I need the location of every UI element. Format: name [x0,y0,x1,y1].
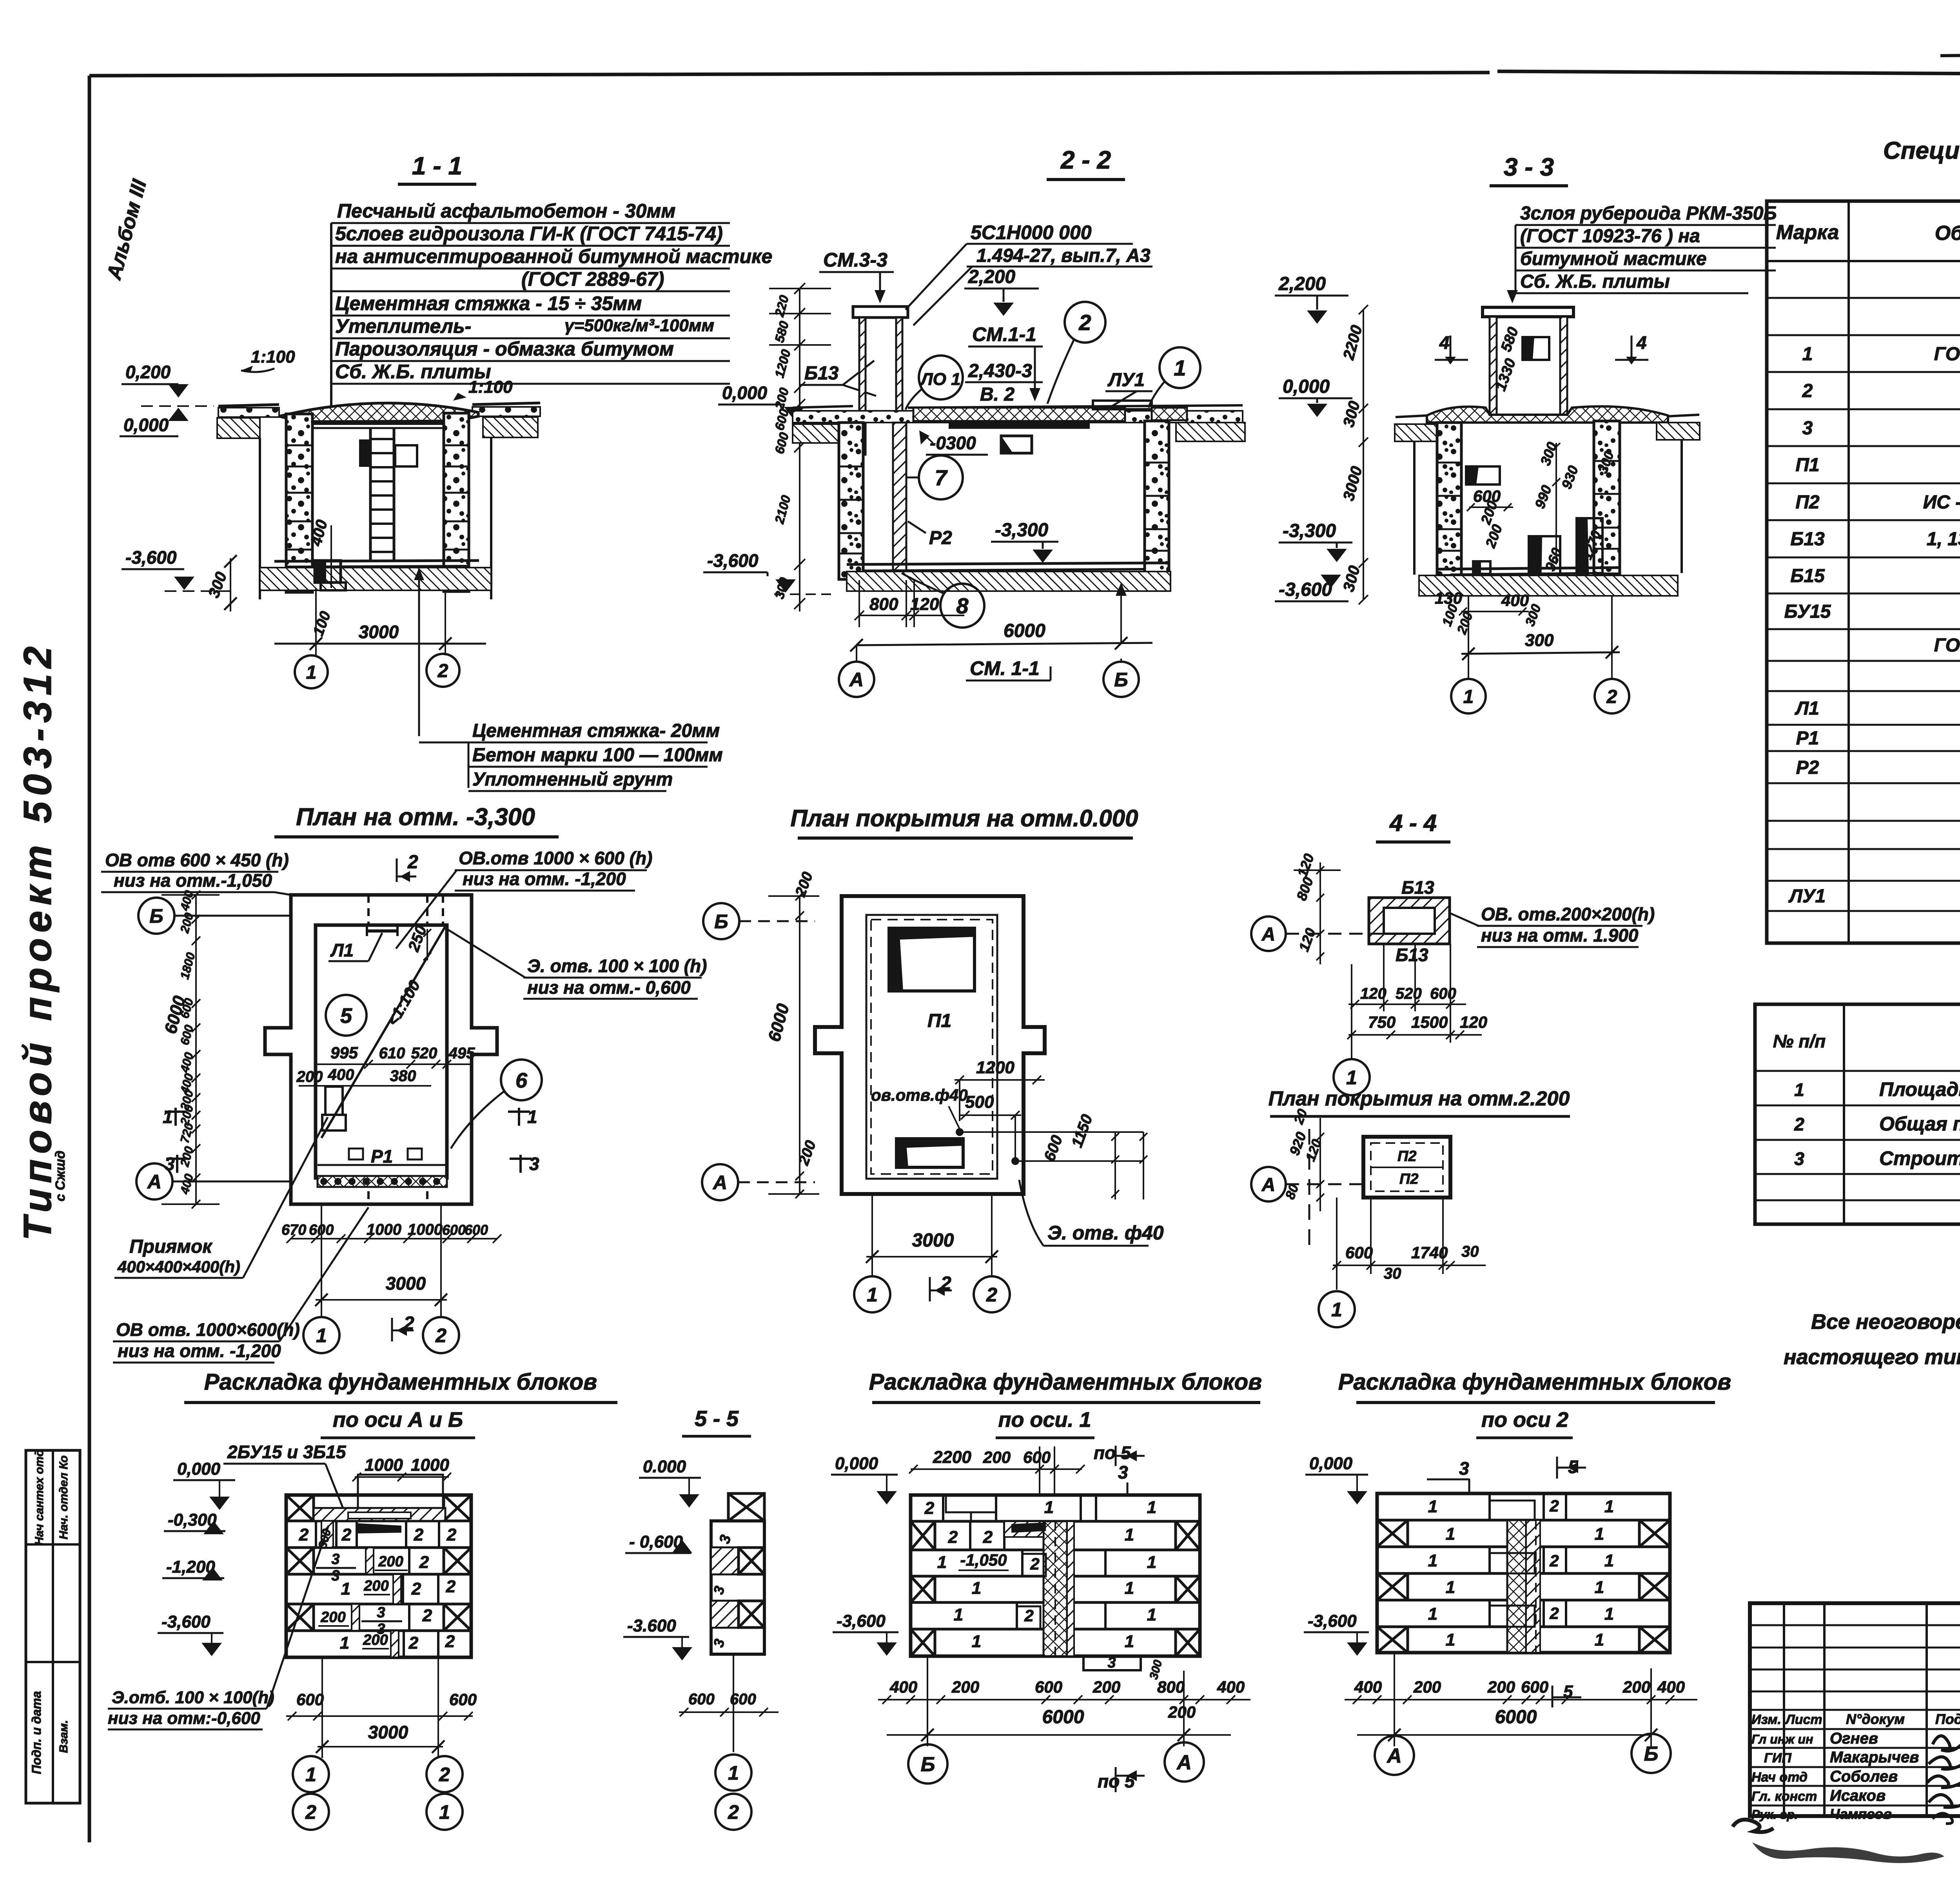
plan 2.200 left dims [1283,1107,1325,1211]
svg-text:2: 2 [728,1801,739,1823]
section 4-4 axis circle 1 [1334,1059,1370,1095]
section 3-3 excavation outline [1414,440,1682,575]
note text all units see album IV [1784,1310,1960,1369]
svg-text:2: 2 [407,852,418,873]
svg-text:Б13: Б13 [1401,877,1434,898]
layout axis2 block wall elevation [1377,1493,1670,1653]
section 3-3 small fixture 200 [1473,499,1505,574]
section 1-1 roof crosshatch slab [279,403,478,422]
svg-text:200: 200 [363,1578,388,1594]
svg-text:1 - 1: 1 - 1 [412,152,462,180]
plan -3.300 detail circle 6 [451,1060,542,1149]
svg-text:0,200: 0,200 [125,362,171,382]
svg-text:1: 1 [972,1579,981,1598]
section 2-2 level 2,200 [964,267,1039,316]
svg-text:2: 2 [299,1525,309,1544]
layout axis1 row3 blocks [937,1550,1156,1576]
svg-text:1: 1 [305,1764,316,1785]
svg-text:Э. отв. ф40: Э. отв. ф40 [1047,1222,1164,1244]
layout A-B row3 blocks [286,1548,471,1584]
svg-text:3: 3 [710,1637,728,1649]
svg-text:Гл инж ин: Гл инж ин [1751,1732,1813,1746]
svg-text:1, 139 -1 , вып. 1: 1, 139 -1 , вып. 1 [1927,529,1960,550]
plan -3.300 pit rectangle [322,1087,346,1130]
plan 0.000 bottom opening dark [897,1139,963,1167]
svg-text:580: 580 [772,319,791,344]
section 2-2 chimney [853,307,908,455]
svg-text:30: 30 [1461,1243,1479,1260]
layout A-B level 0,000 [173,1459,235,1510]
svg-text:100: 100 [310,609,334,638]
section 2-2 level -3,300 [991,520,1058,563]
svg-text:1: 1 [527,1107,537,1127]
svg-text:1: 1 [340,1633,349,1653]
title block signature rows [1751,1730,1919,1822]
svg-text:400: 400 [1217,1678,1245,1696]
svg-text:<1:100: <1:100 [384,978,424,1029]
plan -3.300 outer wall outline [265,895,497,1204]
layout axis1 row6 blocks [911,1629,1200,1656]
section 1-1 asphalt road surface band [218,403,540,417]
svg-text:2: 2 [924,1499,935,1518]
section 3-3 axis circle 2 [1595,679,1629,713]
plan 0.000 label E otv f40 [1019,1180,1164,1246]
svg-text:580: 580 [1498,325,1522,354]
svg-text:2: 2 [446,1577,456,1596]
svg-text:1: 1 [1125,1525,1134,1544]
svg-text:3: 3 [331,1568,339,1584]
svg-text:2 - 2: 2 - 2 [1060,146,1111,174]
layout A-B row2 blocks [299,1521,457,1550]
section 1-1 ground hatch left [217,418,260,438]
svg-text:-3,600: -3,600 [1308,1611,1357,1631]
svg-text:Б13: Б13 [1396,945,1428,965]
section 4-4 label OV otv 200x200 [1450,904,1655,947]
svg-text:600: 600 [1345,1243,1373,1262]
plan -3.300 section mark 2 top [397,852,418,882]
svg-text:3: 3 [377,1604,385,1621]
svg-text:-1,050: -1,050 [960,1551,1007,1569]
layout A-B bottom dims [286,1657,477,1758]
plan 0.000 dim 1200 [955,1058,1045,1121]
svg-text:Э.отб. 100 × 100(h): Э.отб. 100 × 100(h) [112,1688,274,1707]
plan -3.300 label E otv 100x100 [447,929,707,999]
svg-text:по оси 2: по оси 2 [1481,1408,1568,1432]
svg-text:1: 1 [316,1325,327,1346]
svg-text:1: 1 [954,1605,963,1624]
svg-text:2,200: 2,200 [968,267,1015,287]
plan -3.300 axis circle 1 bottom [303,1317,339,1353]
svg-text:0,000: 0,000 [1283,376,1330,397]
section 1-1 right wall blocks [444,413,469,592]
svg-text:П2: П2 [1397,1148,1416,1165]
layout axis1 title [869,1369,1262,1438]
svg-text:300: 300 [205,570,230,600]
plan -3.300 section mark 1 left [163,1107,187,1127]
svg-text:Б13: Б13 [1790,529,1825,550]
layout axis2 row3 blocks [1428,1547,1614,1573]
svg-text:А: А [849,669,864,691]
layout axis1 block wall elevation [911,1495,1200,1656]
section 4-4 dims below [1347,944,1487,1058]
scan smudges under title block [1733,1820,1960,1864]
svg-text:низ на отм. -1,200: низ на отм. -1,200 [118,1341,281,1361]
plan 0.000 axis circle B left [703,903,815,939]
svg-text:Общая площадь: Общая площадь [1879,1113,1960,1135]
layout A-B top corner X boxes [286,1495,471,1521]
svg-text:3слоя рубероида РКМ-350Б: 3слоя рубероида РКМ-350Б [1520,203,1777,224]
svg-text:Спецификация изделий на одн: Спецификация изделий на одну камеру [1883,137,1960,164]
svg-text:П2: П2 [1795,492,1820,513]
svg-text:1200: 1200 [772,348,793,379]
plan 2.200 axis circle A [1251,1129,1363,1247]
svg-text:200: 200 [1168,1703,1196,1721]
plan -3.300 section mark 2 bottom [392,1313,414,1341]
svg-text:2: 2 [1024,1606,1033,1625]
layout A-B level -1,200 [162,1557,224,1580]
svg-text:1: 1 [937,1553,947,1572]
section 2-2 dim 800 120 [855,580,964,627]
svg-text:П2: П2 [1399,1171,1418,1187]
svg-text:250: 250 [405,923,430,954]
svg-text:Р1: Р1 [371,1146,393,1167]
svg-text:ов.отв.ф40: ов.отв.ф40 [871,1086,968,1104]
section 3-3 road crosshatch cover [1396,406,1699,423]
section 1-1 slope label 1:100 left [241,347,295,372]
section 3-3 level 2,200 [1275,274,1348,324]
svg-text:1: 1 [728,1762,739,1784]
section 1-1 axis circle 2 [426,654,459,687]
section 2-2 label R2 [908,521,952,548]
svg-text:2: 2 [1549,1551,1559,1570]
svg-text:-3,600: -3,600 [1279,579,1332,600]
svg-text:400: 400 [328,1066,354,1083]
plan -3.300 dim 250 [405,923,431,960]
svg-text:200: 200 [296,1068,323,1085]
svg-text:200: 200 [792,870,816,899]
plan 2.200 axis circle 1 [1319,1291,1355,1327]
svg-text:2: 2 [439,1764,450,1785]
section 1-1 ground hatch right [483,417,538,437]
svg-text:600: 600 [465,1222,488,1238]
svg-text:2: 2 [445,1632,455,1651]
svg-text:низ на отм. 1.900: низ на отм. 1.900 [1481,925,1639,945]
svg-text:600: 600 [772,407,791,432]
section 2-2 ground hatch right [1176,423,1245,441]
layout axis2 row1 blocks [1428,1493,1614,1520]
svg-text:1: 1 [1147,1498,1156,1517]
svg-text:5 - 5: 5 - 5 [695,1406,739,1431]
svg-text:1: 1 [1604,1604,1614,1624]
svg-text:400: 400 [178,1172,196,1196]
svg-text:План покрытия на отм.0.000: План покрытия на отм.0.000 [790,805,1138,831]
section 4-4 left dims [1293,851,1341,964]
plan 0.000 dim 600 1150 right [1041,1112,1147,1199]
svg-text:300: 300 [772,575,791,600]
section 1-1 floor layers note [419,720,723,791]
svg-text:120: 120 [1294,851,1317,879]
plan -3.300 label priamok [114,1117,328,1278]
svg-text:- 0,600: - 0,600 [629,1532,683,1551]
svg-text:1: 1 [1794,1080,1804,1100]
svg-text:А: А [147,1171,162,1193]
plan -3.300 inner wall outline [316,925,447,1178]
section 2-2 axis circle A [839,645,874,697]
svg-text:1150: 1150 [1068,1112,1096,1150]
section 1-1 roof underside dark strip [314,420,443,425]
section 1-1 level mark -3,600 [122,547,235,591]
section 2-2 interior partition with hatch [893,423,906,572]
layout A-B row5 blocks [286,1604,471,1637]
svg-text:3: 3 [1107,1655,1116,1671]
svg-text:Альбом III: Альбом III [102,177,151,283]
svg-text:1: 1 [972,1632,981,1651]
svg-text:1: 1 [1125,1579,1134,1598]
svg-text:995: 995 [330,1043,358,1062]
svg-text:2200: 2200 [933,1448,971,1467]
svg-text:400: 400 [178,1051,196,1074]
svg-text:Соболев: Соболев [1830,1768,1898,1785]
svg-text:А: А [712,1172,727,1194]
svg-text:низ на отм. -1,200: низ на отм. -1,200 [463,869,626,889]
svg-text:№ п/п: № п/п [1773,1031,1826,1051]
svg-text:1800: 1800 [178,951,198,981]
svg-text:с Сжшд: с Сжшд [53,1150,68,1201]
plan -3.300 axis circle B [138,898,291,934]
svg-text:400: 400 [889,1678,917,1696]
svg-text:Исаков: Исаков [1830,1787,1886,1804]
svg-text:3: 3 [529,1154,539,1174]
section 2-2 label 2.430-3 B.2 [965,361,1043,405]
section 3-3 ground hatch left [1395,424,1437,441]
layout axis2 row2 blocks [1377,1520,1670,1547]
layout A-B label 2BU15 [223,1442,347,1513]
section 3-3 floor slab [1437,568,1620,575]
plan -3.300 label OV otv 1000x600 top [396,848,652,949]
svg-text:по оси. 1: по оси. 1 [998,1408,1091,1432]
svg-text:Р2: Р2 [929,528,952,548]
svg-text:П1: П1 [1795,455,1819,475]
svg-text:0,000: 0,000 [177,1459,221,1479]
svg-text:400: 400 [1657,1678,1685,1696]
svg-text:Уплотненный грунт: Уплотненный грунт [472,769,673,790]
svg-text:200: 200 [378,1553,403,1570]
svg-text:Огнев: Огнев [1830,1730,1878,1747]
svg-text:А: А [1261,1174,1276,1195]
svg-text:1000: 1000 [411,1455,449,1475]
svg-text:2: 2 [419,1553,429,1572]
svg-text:СМ.3-3: СМ.3-3 [823,249,887,271]
svg-text:600: 600 [772,430,791,455]
svg-text:600: 600 [296,1690,324,1709]
svg-text:-3,600: -3,600 [707,550,759,571]
svg-text:1: 1 [1174,356,1186,380]
section 3-3 section marks 4-4 [1435,332,1648,365]
section 3-3 under-floor hatch [1419,575,1678,596]
svg-text:7: 7 [935,465,948,490]
svg-text:0,000: 0,000 [123,415,169,435]
svg-text:настоящего типового проекта: настоящего типового проекта [1784,1345,1960,1369]
svg-text:600: 600 [1521,1678,1548,1696]
section 2-2 level -0300 [919,430,988,455]
section 3-3 left dim chain [1340,305,1368,604]
svg-text:200: 200 [178,1145,196,1169]
section 2-2 label LU1 [1105,370,1152,408]
section 2-2 road surface speckle band [793,405,1243,423]
svg-text:6000: 6000 [1495,1707,1537,1727]
svg-text:-3,600: -3,600 [162,1612,211,1631]
svg-text:120: 120 [1296,926,1319,953]
svg-text:1: 1 [1604,1497,1614,1516]
section 3-3 interior opening 960 dark [1529,536,1565,589]
svg-text:-0300: -0300 [930,433,976,453]
layout axis2 level -3,600 [1304,1611,1369,1656]
svg-text:ОВ.отв 1000 × 600 (h): ОВ.отв 1000 × 600 (h) [459,848,652,868]
svg-text:Нач. отдел Ко: Нач. отдел Ко [57,1455,70,1539]
section 4-4 title [1376,810,1450,842]
svg-text:2: 2 [408,1633,419,1653]
section 2-2 level 0,000 left [718,383,804,420]
svg-text:0,000: 0,000 [835,1454,878,1473]
section 4-4 beam cross-section [1369,898,1450,944]
svg-text:-3,600: -3,600 [837,1611,886,1631]
section 2-2 title [1047,146,1125,180]
svg-text:Утеплитель-: Утеплитель- [335,315,471,337]
layout axis1 top dims [909,1443,1145,1493]
section 2-2 under-floor hatch [847,572,1171,591]
svg-text:В. 2: В. 2 [980,384,1014,405]
section 1-1 small box right of ladder [395,445,417,466]
svg-text:1.494-27, вып.7, А3: 1.494-27, вып.7, А3 [976,245,1151,266]
layout axis1 level 0,000 [831,1454,898,1504]
section 3-3 dim 300 axis [1461,596,1620,678]
section 4-4 axis circle A [1251,916,1384,951]
svg-text:4: 4 [1439,332,1450,353]
svg-text:1: 1 [1595,1578,1604,1597]
section 3-3 chimney dims 580 1330 [1492,325,1522,393]
plan -3.300 left dim chain [161,889,220,1208]
title block header row labels [1751,1711,1960,1727]
svg-text:3: 3 [716,1533,734,1545]
section 2-2 axis circle B [1103,659,1139,697]
plan -3.300 interior dims row [296,1043,475,1086]
svg-text:на антисептированной битумной: на антисептированной битумной мастике [335,245,772,267]
svg-text:1: 1 [1147,1605,1156,1624]
svg-text:-3,300: -3,300 [995,520,1048,541]
svg-text:по оси А и Б: по оси А и Б [333,1408,463,1432]
svg-text:2: 2 [1549,1604,1559,1622]
section 2-2 note 5S1N000 [906,221,1152,325]
svg-text:2: 2 [422,1606,432,1625]
svg-text:2: 2 [437,660,448,681]
svg-text:Раскладка фундаментных блоков: Раскладка фундаментных блоков [869,1369,1262,1395]
svg-text:200: 200 [951,1678,979,1696]
svg-text:3: 3 [1794,1149,1804,1169]
section 1-1 leader to floor note [414,568,424,736]
svg-text:200: 200 [320,1609,345,1626]
section 3-3 level -3,600 [1275,575,1348,601]
svg-text:1:100: 1:100 [251,347,295,367]
indicators row 2 obshchaya ploshchad [1794,1112,1960,1135]
svg-text:БУ15: БУ15 [1784,601,1831,622]
svg-text:600: 600 [1041,1133,1066,1163]
layout A-B label E otb 100x100 [108,1526,328,1729]
svg-text:600: 600 [1430,985,1456,1002]
section 1-1 level mark 0,200 [122,362,189,397]
svg-text:-3.600: -3.600 [627,1616,676,1635]
svg-text:низ на отм.- 0,600: низ на отм.- 0,600 [527,977,691,998]
section 2-2 callout CM.3-3 [819,249,894,303]
svg-text:Чампсов: Чампсов [1830,1806,1892,1822]
layout axis2 level 0,000 [1305,1454,1368,1504]
layout axis1 row4 blocks [911,1576,1200,1602]
svg-text:Цементная стяжка - 15 ÷ 35мм: Цементная стяжка - 15 ÷ 35мм [335,292,642,314]
svg-text:200: 200 [795,1138,819,1168]
svg-text:200: 200 [1093,1678,1120,1696]
svg-text:Нач сантех отд: Нач сантех отд [33,1449,46,1545]
layout axis2 section marks top [1427,1457,1586,1493]
section 1-1 level mark 0,000 [120,406,214,436]
svg-text:1: 1 [1595,1630,1604,1649]
svg-text:500: 500 [965,1092,994,1112]
specification table headers [1776,212,1960,252]
svg-text:ЛУ1: ЛУ1 [1107,370,1145,390]
svg-text:2: 2 [986,1284,997,1306]
layout axis2 center hatched column [1507,1520,1540,1653]
svg-text:Цементная стяжка- 20мм: Цементная стяжка- 20мм [472,720,720,741]
svg-text:5слоев гидроизола ГИ-К (ГОСТ 7: 5слоев гидроизола ГИ-К (ГОСТ 7415-74) [335,223,723,245]
svg-text:800: 800 [1157,1678,1185,1696]
svg-text:600: 600 [442,1222,466,1238]
svg-text:П1: П1 [927,1011,951,1031]
plan 0.000 top opening dark [889,928,975,991]
svg-text:600: 600 [449,1690,477,1709]
svg-text:2: 2 [414,1525,424,1544]
svg-text:ГИП: ГИП [1764,1751,1792,1766]
svg-text:300: 300 [1525,631,1554,650]
svg-text:4: 4 [1636,332,1647,353]
svg-text:Л1: Л1 [1795,698,1819,719]
layout axis2 row4 blocks [1377,1573,1670,1600]
svg-text:А: А [1261,924,1276,945]
svg-text:8: 8 [956,593,969,618]
section 1-1 title [398,152,476,184]
svg-text:930: 930 [1558,463,1581,491]
section 3-3 level -3,300 [1279,521,1352,562]
plan -3.300 title [274,804,559,837]
svg-text:Приямок: Приямок [129,1236,213,1257]
svg-text:СМ. 1-1: СМ. 1-1 [970,657,1040,679]
section 3-3 interior dims 990 300 [1532,440,1560,564]
plan 0.000 dim 500 [960,1092,1021,1165]
section 3-3 chimney [1483,307,1573,415]
svg-text:6: 6 [515,1069,528,1092]
svg-text:1: 1 [341,1579,350,1599]
svg-text:ИС -01- 04 вып. 2: ИС -01- 04 вып. 2 [1923,492,1960,513]
svg-text:1: 1 [1044,1498,1054,1517]
plan -3.300 axis circle A [136,1163,291,1199]
plan -3.300 detail circle 5 [326,995,367,1036]
svg-text:1: 1 [1331,1299,1342,1321]
plan 0.000 inner dashed slab edge [866,915,997,1179]
section 1-1 bottom dim 3000 [274,588,486,655]
svg-text:-3,600: -3,600 [125,547,177,568]
svg-text:ЛУ1: ЛУ1 [1788,886,1826,907]
svg-text:γ=500кг/м³-100мм: γ=500кг/м³-100мм [564,316,714,335]
layout axis1 axis circles [908,1742,1204,1792]
svg-text:1: 1 [867,1284,878,1306]
plan -3.300 diagonal slope line [321,927,445,1138]
